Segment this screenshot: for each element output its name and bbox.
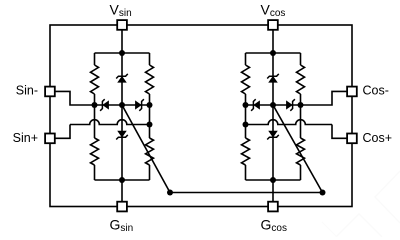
svg-text:Cos-: Cos- bbox=[363, 84, 389, 98]
svg-text:Vcos: Vcos bbox=[261, 2, 286, 20]
svg-text:Cos+: Cos+ bbox=[363, 131, 393, 145]
svg-text:Gsin: Gsin bbox=[110, 217, 134, 235]
svg-text:Sin+: Sin+ bbox=[13, 131, 38, 145]
svg-text:Vsin: Vsin bbox=[110, 2, 132, 20]
svg-text:Sin-: Sin- bbox=[16, 84, 38, 98]
svg-text:Gcos: Gcos bbox=[261, 217, 287, 235]
